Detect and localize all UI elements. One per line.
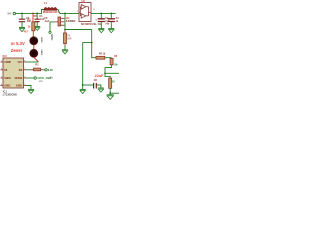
ground under C3 bar [19,27,25,29]
wire red LED2 down [34,57,38,62]
wire red feed from rail [32,13,34,22]
wire C8 right to ground [97,85,101,88]
port P1 pin circle [13,12,15,14]
junction rail x111 [110,13,112,15]
svg-text:1: 1 [1,60,2,62]
pin circle node ILIM [45,69,47,71]
svg-text:Zener: Zener [11,48,23,53]
svg-text:8: 8 [24,60,25,62]
buffer U2B triangle [81,14,86,19]
IC U1 box [3,58,24,88]
ground under x82.7 bar [80,88,86,90]
wire vertical x65 [64,13,66,29]
capacitor C5 stub bottom [36,22,38,26]
ground under x82.7 triangle [80,91,85,94]
IC U2 internal output bus [86,7,91,16]
wire junction to ground [109,93,111,94]
wire y93.2 to right edge [110,92,119,94]
LED D1 [30,37,38,45]
ground under R7 triangle [107,96,113,100]
svg-text:7: 7 [24,68,25,70]
svg-text:LED2: LED2 [40,50,42,56]
wire y73.3 to right edge [105,72,119,74]
LED D2 [30,49,38,57]
svg-text:MH2029-301Y: MH2029-301Y [43,11,59,14]
wire top rail left [16,12,42,14]
ground under R5 bar [62,49,68,51]
resistor R7 vertical [109,78,112,88]
svg-text:2: 2 [1,68,2,70]
svg-text:COMP: COMP [4,62,11,64]
svg-text:ILIM: ILIM [48,69,53,72]
resistor R1 body [32,22,35,31]
ground under pin4 triangle [28,91,33,94]
IC U1 left pin stubs [0,62,3,86]
junction rail x65 [64,13,66,15]
ground under R7 bar [107,94,114,96]
crystal Q1 body [58,17,61,26]
wire top rail middle [59,12,79,14]
pin circle node GPIO [34,77,36,79]
svg-text:LED1: LED1 [40,37,42,43]
svg-text:5V: 5V [112,81,115,83]
svg-text:MISO: MISO [50,34,52,40]
capacitor C4 stubs [110,13,112,28]
wire jog up to L1 [42,10,45,14]
wire R6 down jog left [105,65,112,74]
svg-text:5V-: 5V- [8,12,12,16]
capacitor C2 plates [98,19,105,22]
IC U1 right pin stubs [24,62,27,86]
capacitor C2 stubs [100,13,102,28]
wire L1 out diagonal [57,10,60,14]
capacitor C3 plates [19,19,25,22]
svg-text:R4 1k: R4 1k [99,53,106,56]
wire red to LED1 [32,31,34,37]
svg-text:SENSE: SENSE [15,78,23,80]
ground under C2 triangle [99,30,104,33]
svg-text:IC2: IC2 [3,54,8,58]
inductor L1 [44,8,57,11]
wire junction to R7 [105,73,110,78]
wire R2 to node [44,69,45,71]
ground under C5 bar [34,26,40,28]
svg-text:U2: U2 [82,0,86,3]
svg-text:GND1: GND1 [4,86,11,88]
resistor R5 top stub [64,30,66,33]
ground under C3 triangle [19,29,24,32]
wire IC pin4 to ground [27,86,32,90]
svg-text:SHDN: SHDN [4,78,11,80]
wire vertical x91.7 [91,30,93,59]
junction rail x37.7 [36,13,38,15]
svg-text:3: 3 [1,76,2,78]
wire R4 to R6 [105,57,112,59]
resistor R2 stubs [30,69,44,71]
svg-text:5: 5 [24,84,25,86]
junction rail x22 [21,13,23,15]
resistor R5 [64,33,67,44]
capacitor C4 plates [108,19,115,22]
wire R5 to ground [64,46,66,49]
capacitor C8 plates [94,83,97,89]
svg-text:GND2: GND2 [16,86,23,88]
capacitor C3 stubs [21,13,23,27]
svg-text:8.00MHZ: 8.00MHZ [66,21,76,23]
wire y85 to C8 [83,84,93,86]
junction x105 y73.3 [104,72,106,74]
ground under C5 triangle [35,28,40,31]
wire red LED1 to LED2 [33,45,35,50]
buffer U2A triangle [81,5,86,10]
svg-text:4k7: 4k7 [24,30,29,34]
wire R7 down [109,88,111,93]
junction node x65 y29.5 [64,29,66,31]
svg-text:or 5.3V: or 5.3V [11,41,25,46]
svg-text:NC7WZ16 NL 1%: NC7WZ16 NL 1% [81,23,102,26]
ground under pin4 bar [28,88,34,90]
junction x82.7 y85 [82,84,84,86]
wire horizontal y42.5 [83,42,92,44]
resistor R4 horizontal [96,56,105,59]
wire IC pin2 stub [27,69,31,71]
resistor R6 vertical [110,58,113,65]
svg-text:Q1: Q1 [66,16,70,20]
svg-text:FB: FB [4,70,7,72]
pin circle node MISO [49,31,51,33]
wire top rail right [91,12,116,14]
ground under C8 triangle [98,89,103,92]
wire IC pin3 row [27,77,34,79]
junction rail x33 [32,13,34,15]
svg-text:6: 6 [24,76,25,78]
resistor R5 bottom stub [64,44,66,47]
svg-text:LT1302CN8: LT1302CN8 [3,93,17,97]
svg-text:22uF: 22uF [95,74,105,78]
svg-text:VCC: VCC [17,62,22,64]
wire horizontal y29.5 [65,29,92,31]
wire Q1 left pin down [50,22,55,31]
ground under C8 bar [98,87,104,89]
crystal Q1 pins [55,19,65,26]
svg-text:88R: 88R [67,38,72,40]
svg-text:.1uF: .1uF [44,20,49,23]
capacitor C5 plates [35,19,40,21]
resistor R2 horizontal [34,68,41,71]
junction x91.7 y42.5 [91,42,93,44]
svg-text:C4: C4 [116,17,119,20]
wire vertical x82.7 [82,43,84,90]
junction x110.2 y93.2 [109,92,111,94]
wire into R4 [92,57,96,59]
capacitor C5 stub top [36,13,38,18]
ground under C4 bar [108,28,114,30]
IC U2 internal input bus [79,7,81,16]
wire IC pin1 row [27,61,39,63]
ground under R5 triangle [62,51,67,54]
ground under C4 triangle [109,30,114,33]
svg-text:L1: L1 [44,1,48,5]
junction rail x101 [100,13,102,15]
IC U2 box [79,3,91,22]
ground under C2 bar [98,28,104,30]
